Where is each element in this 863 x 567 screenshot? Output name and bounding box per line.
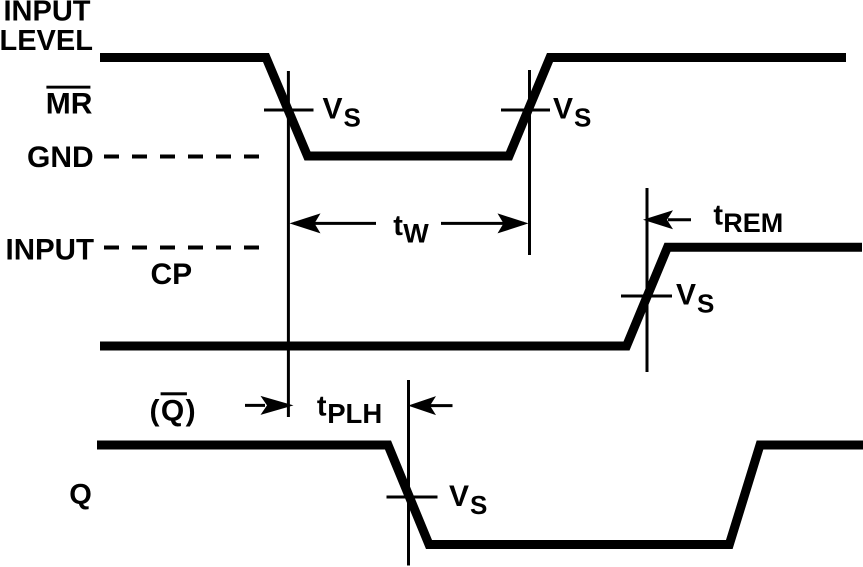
svg-text:V: V (553, 92, 573, 125)
svg-text:Q: Q (69, 479, 92, 511)
tPLH right arrow (points left to V4) (408, 396, 453, 415)
label MR with overline (46, 86, 93, 121)
vertical reference line V2 (MR rising edge) (528, 70, 531, 255)
tW label (393, 210, 429, 248)
VS tick on MR rising edge (501, 109, 550, 112)
svg-text:V: V (449, 480, 469, 513)
svg-text:S: S (344, 102, 361, 132)
svg-text:t: t (713, 200, 723, 232)
svg-text:CP: CP (151, 258, 193, 291)
label (Q) with overline (150, 392, 198, 427)
svg-text:V: V (323, 92, 343, 125)
VS label 1 (323, 92, 361, 132)
VS tick on CP rising edge (621, 295, 672, 298)
tREM arrow (points left to V3) (643, 210, 691, 229)
svg-text:S: S (574, 102, 591, 132)
tPLH left arrow (points right to V1) (245, 396, 294, 415)
VS tick on MR falling edge (264, 109, 314, 112)
tPLH label (317, 391, 382, 430)
tW dimension right arrow (441, 213, 529, 233)
label INPUT LEVEL (0, 0, 93, 57)
vertical reference line V1 (MR falling edge) (287, 71, 290, 417)
VS label 4 (449, 480, 487, 520)
svg-text:t: t (317, 391, 327, 423)
svg-text:V: V (676, 279, 696, 312)
VS label 2 (553, 92, 591, 132)
INPUT dashed line (104, 246, 260, 250)
svg-text:S: S (470, 490, 487, 520)
VS label 3 (676, 279, 714, 319)
svg-text:LEVEL: LEVEL (0, 25, 93, 57)
tW dimension left arrow (290, 213, 377, 233)
svg-text:PLH: PLH (327, 398, 382, 429)
svg-text:REM: REM (723, 208, 783, 238)
svg-text:GND: GND (27, 141, 94, 174)
svg-text:INPUT: INPUT (6, 233, 95, 266)
svg-text:MR: MR (46, 87, 93, 120)
vertical reference line V4 (Q falling edge) (407, 380, 410, 566)
svg-text:S: S (697, 289, 714, 319)
waveform Q (97, 445, 863, 545)
waveform MR (100, 58, 846, 157)
VS tick on Q falling edge (387, 496, 438, 499)
waveform CP (100, 247, 862, 346)
GND dashed line (104, 155, 260, 159)
svg-text:W: W (403, 218, 429, 248)
svg-text:(Q): (Q) (150, 394, 198, 427)
tREM label (713, 200, 783, 239)
svg-text:INPUT: INPUT (4, 0, 91, 28)
vertical reference line V3 (CP rising edge) (646, 188, 649, 372)
svg-text:t: t (393, 210, 403, 242)
